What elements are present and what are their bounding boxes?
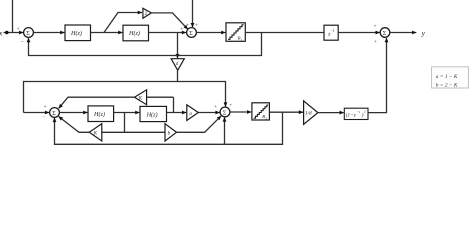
wire S2 to quantizer Q1 (196, 32, 225, 34)
svg-text:+: + (374, 40, 377, 45)
op summer S1 (24, 28, 34, 38)
svg-text:2: 2 (265, 116, 267, 120)
gain triangle B value b pointing right (165, 124, 177, 141)
svg-text:d: d (176, 62, 179, 67)
wire interstage line left elbow into S4 and right elbow into S5 (24, 82, 226, 113)
svg-text:−1: −1 (331, 29, 335, 33)
wire S1 to block H1 (33, 32, 64, 34)
wire S4 to block H3 (59, 112, 87, 114)
wire H4 to gain A (167, 112, 187, 114)
svg-text:Σ: Σ (52, 111, 56, 117)
block H3 H(z) (88, 106, 114, 122)
svg-text:+: + (44, 105, 47, 110)
wire interstage left into summer S4 (24, 112, 50, 114)
svg-text:+: + (374, 24, 377, 29)
svg-text:−: − (21, 40, 24, 46)
block differentiator (1-z^-1)^2 (344, 108, 368, 119)
wire H1 to H2 (91, 32, 123, 34)
wire delay to summer S3 (338, 32, 380, 34)
svg-text:H(z): H(z) (146, 111, 158, 118)
svg-text:+: + (186, 23, 189, 28)
wire S3 to output y (390, 32, 417, 34)
svg-text:a = 1 − K: a = 1 − K (436, 74, 458, 80)
svg-text:H(z): H(z) (70, 30, 82, 37)
op summer S4 (50, 108, 60, 118)
wire vertical branch from input line to top edge (12, 0, 14, 33)
wire G2 apex down to interstage line (177, 70, 179, 81)
node input junction dot (5, 31, 9, 35)
svg-text:2: 2 (145, 12, 148, 17)
svg-text:K: K (93, 132, 98, 137)
svg-text:H(z): H(z) (93, 111, 105, 118)
block H2 H(z) (123, 25, 149, 41)
svg-text:+: + (17, 26, 20, 32)
wire input to summer S1 (4, 32, 24, 34)
svg-text:a: a (189, 112, 192, 117)
gain triangle G3 value 1/d (304, 101, 318, 124)
wire feedforward from node up to gain G1 (104, 13, 142, 33)
svg-text:1: 1 (241, 38, 243, 42)
gain triangle K2 pointing left (89, 124, 102, 141)
wire node right of H4 up to K1 line (173, 97, 175, 112)
wire feedback from Q1 output node to S1 (29, 33, 262, 56)
wire feedback from Q2 output node to S4 (55, 112, 283, 144)
wire vertical from top edge into S2 (192, 0, 194, 27)
svg-text:Σ: Σ (189, 31, 193, 37)
svg-text:−: − (42, 116, 45, 121)
svg-text:Σ: Σ (26, 31, 30, 37)
svg-text:1/d: 1/d (305, 111, 312, 117)
wire K2 b horizontal line (102, 131, 165, 133)
wire G3 to differentiator block (318, 112, 344, 114)
wire G1 to summer S2 (151, 13, 187, 29)
gain triangle G1 value 2 (143, 8, 152, 18)
svg-text:+: + (195, 24, 198, 29)
wire H3 to H4 (114, 112, 140, 114)
svg-text:Σ: Σ (223, 110, 227, 116)
op summer S3 (380, 28, 390, 38)
svg-text:Σ: Σ (383, 31, 387, 37)
gain triangle A value a pointing right (187, 105, 199, 121)
svg-text:b = 2 − K: b = 2 − K (436, 83, 458, 89)
op summer S5 (220, 107, 230, 117)
svg-text:+: + (214, 105, 217, 110)
wire K1 apex diagonal into S4 (59, 97, 135, 108)
wire gain A to S5 (198, 112, 219, 114)
block delay z^-1 (324, 25, 338, 40)
svg-text:K: K (138, 97, 143, 102)
block H1 H(z) (65, 25, 91, 41)
wire Q1 to delay block (245, 32, 324, 34)
wire H2 to S2 (149, 32, 187, 34)
wire differentiator up into S3 bottom (368, 38, 387, 113)
wire K2 apex diagonal into S4 (59, 117, 90, 133)
quantizer Q2 B2 (252, 103, 270, 121)
quantizer Q1 B1 (226, 23, 245, 42)
wire feedback branch up into S5 (224, 117, 226, 144)
wire pickoff node down to gain G2 (177, 33, 179, 59)
gain triangle G2 value d pointing down (171, 59, 184, 71)
block H4 H(z) (140, 106, 167, 121)
svg-text:+: + (229, 103, 232, 108)
wire S5 to quantizer Q2 (230, 111, 251, 113)
svg-text:y: y (421, 29, 426, 37)
svg-text:x: x (0, 28, 3, 37)
wire K1 input horizontal (147, 96, 174, 98)
wire b triangle diagonal into S5 (177, 116, 222, 132)
wire node between H3 H4 down to K2 line (124, 113, 126, 133)
gain triangle K1 pointing left (135, 90, 147, 105)
legend box with a b coefficient definitions (432, 67, 469, 89)
svg-text:H(z): H(z) (128, 30, 140, 37)
op summer S2 (187, 28, 197, 38)
svg-text:2: 2 (364, 110, 366, 114)
svg-text:+: + (180, 28, 183, 33)
svg-text:−1: −1 (357, 110, 361, 114)
svg-text:(1−z: (1−z (346, 111, 356, 118)
svg-text:b: b (168, 132, 171, 137)
wire Q2 to gain G3 (269, 111, 303, 113)
